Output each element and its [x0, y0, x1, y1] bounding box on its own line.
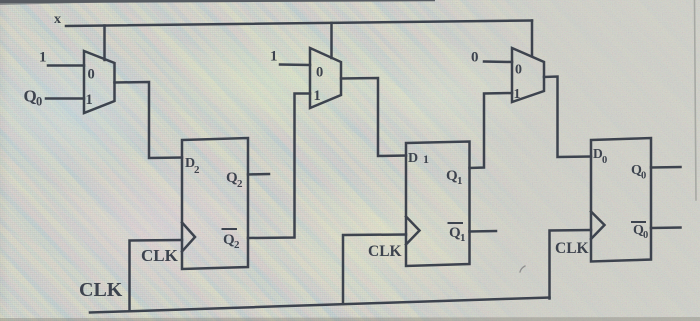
wire: mux U3 output to FF3 D input — [544, 77, 591, 158]
FF3 pin label Q0 — [631, 163, 646, 182]
svg-text:D: D — [408, 151, 418, 166]
FF3 clock triangle — [591, 212, 605, 240]
svg-text:0: 0 — [515, 63, 522, 78]
wire: select into mux U2 — [330, 23, 333, 58]
wire: clock riser to FF1 — [130, 240, 183, 311]
wire: x bus top rail — [66, 21, 532, 27]
wire: Q1 to mux U3 pin 1 — [470, 93, 513, 168]
svg-text:2: 2 — [194, 164, 200, 176]
mux U3 — [512, 48, 544, 102]
flip-flop FF1 body — [182, 138, 248, 269]
FF2 pin label D1 — [408, 151, 429, 166]
mux U1 — [84, 51, 115, 113]
photo artifact: right bezel edge — [695, 0, 697, 200]
svg-text:x: x — [54, 12, 61, 27]
svg-text:2: 2 — [237, 178, 243, 190]
wire: Q0 into mux U1 pin 1 — [46, 97, 84, 100]
label Q0 (input to mux U1) — [24, 87, 43, 109]
wire: clock riser to FF3 — [550, 230, 592, 299]
svg-text:1: 1 — [314, 88, 321, 104]
svg-text:CLK: CLK — [555, 240, 589, 257]
FF2 clock triangle — [406, 217, 420, 245]
flip-flop FF3 body — [591, 138, 651, 262]
FF3 pin label Q0-bar — [632, 222, 648, 241]
svg-text:1: 1 — [270, 49, 278, 65]
svg-text:0: 0 — [471, 50, 479, 66]
wire: Q2-bar to mux U2 pin 1 — [248, 94, 310, 239]
svg-text:1: 1 — [457, 175, 463, 187]
svg-text:0: 0 — [316, 65, 323, 81]
svg-text:1: 1 — [423, 152, 429, 166]
FF1 pin label Q2-bar — [223, 229, 241, 251]
svg-text:1: 1 — [460, 232, 466, 244]
svg-text:1: 1 — [39, 50, 47, 66]
svg-text:1: 1 — [514, 87, 521, 102]
wire: CLK bottom rail — [90, 298, 550, 313]
wire: 1 into mux U1 pin 0 — [48, 64, 84, 67]
top screen edge strip — [0, 0, 435, 3]
wire: select into mux U3 — [531, 21, 534, 57]
wire: clock riser to FF2 — [343, 235, 406, 305]
photo artifact: bottom edge shadow — [0, 317, 700, 321]
FF1 clock triangle — [182, 223, 195, 252]
svg-text:Q: Q — [24, 87, 37, 106]
wire: mux U2 output to FF2 D input — [341, 78, 406, 156]
svg-text:0: 0 — [602, 155, 607, 166]
FF3 pin label D0 — [593, 146, 607, 166]
wire: 0 into mux U3 pin 0 — [484, 60, 512, 63]
svg-text:0: 0 — [36, 95, 42, 109]
FF2 pin label Q1 — [446, 168, 463, 187]
wire: Q1-bar stub — [470, 230, 497, 233]
wire: mux U1 output to FF1 D input — [115, 82, 183, 158]
svg-text:CLK: CLK — [368, 243, 402, 260]
svg-text:0: 0 — [643, 230, 648, 241]
svg-text:CLK: CLK — [141, 246, 179, 265]
mux U2 — [310, 48, 341, 108]
wire: select into mux U1 — [103, 26, 106, 61]
flip-flop FF2 body — [406, 142, 470, 267]
wire: Q0 stub — [651, 166, 681, 169]
FF2 pin label Q1-bar — [449, 223, 466, 244]
FF1 pin label Q2 — [226, 170, 243, 190]
svg-text:2: 2 — [234, 239, 240, 251]
wire: Q0-bar stub — [651, 226, 681, 229]
svg-text:0: 0 — [641, 171, 646, 182]
svg-text:CLK: CLK — [79, 279, 123, 301]
svg-text:0: 0 — [88, 67, 95, 83]
wire: 1 into mux U2 pin 0 — [280, 63, 310, 66]
svg-text:1: 1 — [86, 92, 93, 108]
FF1 pin label D2 — [185, 156, 200, 176]
wire: Q2 stub — [248, 173, 269, 176]
photo artifact: small speck — [520, 266, 525, 272]
